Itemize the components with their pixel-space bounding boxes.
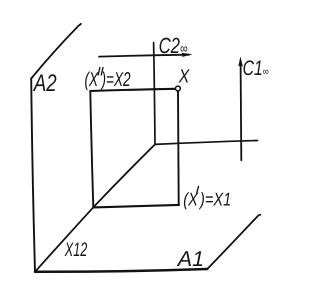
svg-text:X: X bbox=[178, 66, 190, 87]
wire: square right edge (X down to X1) bbox=[177, 91, 180, 204]
arrowhead C1 bbox=[238, 56, 243, 66]
svg-text:A1: A1 bbox=[176, 247, 204, 271]
node x12 axis diagonal bbox=[35, 144, 155, 271]
svg-text:A2: A2 bbox=[32, 70, 56, 97]
prime tick of (X') bbox=[197, 186, 199, 193]
svg-text:C1∞: C1∞ bbox=[243, 57, 269, 80]
wire: C1 direction arrow shaft bbox=[240, 63, 243, 160]
arrowhead C2 bbox=[182, 53, 193, 57]
wire: bottom-right frame diagonal (plane pi1 edge) bbox=[207, 215, 260, 269]
wire: horizontal axis from origin to the right bbox=[155, 141, 258, 145]
wire: square bottom edge (axis to X1) bbox=[93, 205, 179, 208]
wire: bottom frame horizontal (plane pi1 edge) bbox=[35, 269, 207, 272]
wire: C2 direction arrow shaft bbox=[99, 55, 189, 57]
prime ticks of (X'') bbox=[98, 68, 103, 75]
wire: square left edge (X2 down to axis) bbox=[90, 91, 93, 207]
wire: top-left frame diagonal (plane pi2 edge) bbox=[31, 24, 81, 79]
svg-text:C2∞: C2∞ bbox=[159, 33, 188, 58]
node: point X (open circle) bbox=[176, 86, 181, 91]
wire: left frame vertical (plane pi2 edge) bbox=[31, 79, 35, 272]
svg-text:(X″)=X2: (X″)=X2 bbox=[85, 64, 131, 91]
svg-text:(X′)=X1: (X′)=X1 bbox=[183, 182, 231, 210]
wire: square top edge (X2 to X) bbox=[90, 89, 175, 91]
svg-text:X12: X12 bbox=[64, 239, 87, 261]
wire: C2 axis vertical from origin up bbox=[154, 43, 155, 145]
